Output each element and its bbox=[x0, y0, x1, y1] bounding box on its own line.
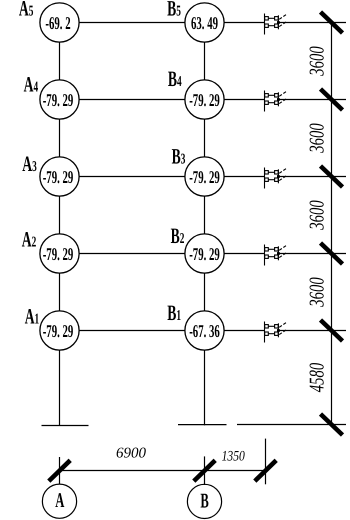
dimension tick slash at row 2 bbox=[321, 243, 343, 264]
svg-text:-79. 29: -79. 29 bbox=[43, 244, 74, 264]
column A base bar bbox=[42, 425, 89, 427]
dimension tick slash at row 5 bbox=[321, 12, 343, 33]
beam row 1: B1 to link wire bbox=[224, 330, 264, 332]
column B (right column line segments) bbox=[204, 42, 206, 80]
bottom dimension line bbox=[60, 470, 266, 472]
beam row 3: A3-B3 wire bbox=[79, 176, 185, 178]
beam row 5: A5-B5 wire bbox=[79, 22, 185, 24]
dimension tick slash at row 1 bbox=[321, 320, 343, 341]
node A1 circle bbox=[40, 311, 79, 350]
node B2 circle bbox=[185, 234, 224, 273]
beam row 1: A1-B1 wire bbox=[79, 330, 185, 332]
svg-text:6900: 6900 bbox=[116, 446, 147, 462]
beam row 5: link to right end wire bbox=[278, 22, 346, 24]
column A (left column line segments) bbox=[59, 42, 61, 80]
svg-text:-79. 29: -79. 29 bbox=[43, 167, 74, 187]
extension tick at axis B bbox=[204, 456, 206, 485]
bottom dimension slash at x 59.5 bbox=[49, 460, 70, 481]
svg-text:-79. 29: -79. 29 bbox=[43, 321, 74, 341]
beam row 4: A4-B4 wire bbox=[79, 99, 185, 101]
dimension tick slash at base bbox=[321, 414, 343, 435]
axis bubble B bbox=[187, 484, 221, 518]
node B3 circle bbox=[185, 157, 224, 196]
dimension tick slash at row 4 bbox=[321, 89, 343, 110]
svg-text:-69. 2: -69. 2 bbox=[45, 13, 70, 33]
dimension tick slash at row 3 bbox=[321, 166, 343, 187]
node A3 circle bbox=[40, 157, 79, 196]
axis bubble A bbox=[42, 484, 76, 518]
beam row 1: link to right end wire bbox=[278, 330, 346, 332]
beam row 5: B5 to link wire bbox=[224, 22, 264, 24]
link support symbol row 2 bbox=[265, 245, 287, 266]
bottom dimension slash at x 265.5 bbox=[255, 460, 276, 481]
column B base bar bbox=[178, 424, 227, 426]
svg-text:4580: 4580 bbox=[305, 362, 329, 392]
bottom dimension slash at x 204.5 bbox=[194, 460, 215, 481]
node A4 circle bbox=[40, 80, 79, 119]
svg-text:1350: 1350 bbox=[222, 449, 246, 465]
svg-text:-79. 29: -79. 29 bbox=[189, 167, 220, 187]
svg-text:3600: 3600 bbox=[305, 123, 329, 153]
node B4 circle bbox=[185, 80, 224, 119]
right base line bbox=[237, 424, 346, 426]
beam row 3: B3 to link wire bbox=[224, 176, 264, 178]
node B5 circle bbox=[185, 3, 224, 42]
svg-text:3600: 3600 bbox=[305, 46, 329, 76]
link support symbol row 1 bbox=[265, 322, 287, 343]
svg-text:3600: 3600 bbox=[305, 277, 329, 307]
svg-text:63. 49: 63. 49 bbox=[191, 13, 218, 33]
beam row 2: A2-B2 wire bbox=[79, 253, 185, 255]
link support symbol row 4 bbox=[265, 91, 287, 112]
svg-text:3600: 3600 bbox=[305, 200, 329, 230]
beam row 3: link to right end wire bbox=[278, 176, 346, 178]
link support symbol row 3 bbox=[265, 168, 287, 189]
svg-text:-79. 29: -79. 29 bbox=[189, 90, 220, 110]
svg-text:B: B bbox=[200, 488, 208, 512]
extension tick at axis A bbox=[59, 457, 61, 484]
beam row 4: link to right end wire bbox=[278, 99, 346, 101]
link support symbol row 5 bbox=[265, 14, 287, 35]
extension line right end bbox=[265, 439, 267, 485]
svg-text:-67. 36: -67. 36 bbox=[189, 321, 220, 341]
right dimension extension line (vertical) bbox=[331, 23, 333, 425]
node A5 circle bbox=[40, 3, 79, 42]
svg-text:A5: A5 bbox=[19, 0, 34, 20]
beam row 4: B4 to link wire bbox=[224, 99, 264, 101]
svg-text:A: A bbox=[55, 488, 65, 512]
beam row 2: link to right end wire bbox=[278, 253, 346, 255]
beam row 2: B2 to link wire bbox=[224, 253, 264, 255]
node B1 circle bbox=[185, 311, 224, 350]
node A2 circle bbox=[40, 234, 79, 273]
svg-text:-79. 29: -79. 29 bbox=[189, 244, 220, 264]
svg-text:-79. 29: -79. 29 bbox=[43, 90, 74, 110]
svg-text:B5: B5 bbox=[167, 0, 181, 21]
